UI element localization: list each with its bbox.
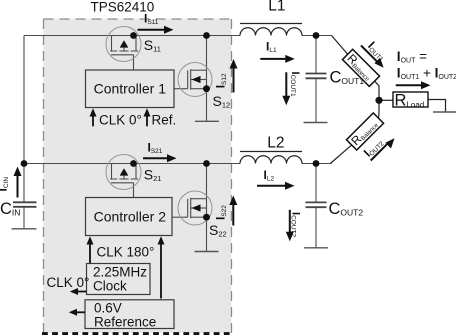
svg-text:0.6V: 0.6V — [94, 301, 122, 316]
svg-text:Controller 2: Controller 2 — [94, 209, 167, 225]
svg-text:Controller 1: Controller 1 — [94, 81, 167, 97]
svg-text:2.25MHz: 2.25MHz — [93, 265, 147, 280]
svg-text:Clock: Clock — [93, 279, 127, 294]
svg-text:CLK 0°: CLK 0° — [47, 275, 90, 290]
svg-text:Reference: Reference — [94, 314, 156, 329]
svg-text:CLK 180°: CLK 180° — [97, 245, 155, 260]
svg-text:L2: L2 — [267, 135, 284, 152]
svg-text:Ref.: Ref. — [152, 112, 177, 127]
svg-text:CLK 0°: CLK 0° — [99, 112, 142, 127]
svg-text:L1: L1 — [268, 0, 285, 15]
